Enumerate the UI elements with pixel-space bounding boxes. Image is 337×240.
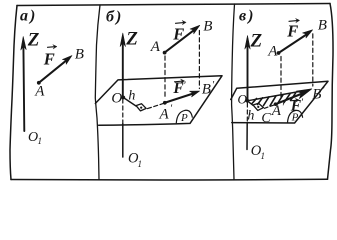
svg-text:Z: Z [125,29,138,50]
svg-text:B: B [75,47,84,63]
plane P (panel v) parallelogram [231,81,328,123]
outer frame border [10,4,333,180]
svg-text:б): б) [106,9,123,26]
svg-text:F: F [43,49,55,68]
svg-text:в): в) [239,8,255,25]
label Z (panel b) [125,29,138,50]
plane P (panel b) parallelogram [95,76,222,126]
vector F (panel v) [277,30,313,55]
svg-text:B: B [312,87,321,103]
label A (panel b) [150,39,161,55]
label F with arrow (panel a) [43,45,57,69]
svg-text:Z: Z [250,30,263,51]
label O1 (panel a) [28,130,42,146]
label F with arrow (panel v) [286,18,299,40]
svg-text:A: A [267,44,278,60]
vector F (panel a) [37,56,72,85]
label Z (panel a) [27,29,40,50]
label Z (panel v) [250,30,263,51]
svg-text:B: B [203,19,212,35]
svg-text:A: A [34,84,45,100]
svg-text:F: F [286,22,298,41]
point O on plane (panel v) [245,99,249,103]
svg-text:а): а) [20,8,37,25]
svg-text:A: A [159,106,170,122]
axis Z (panel b) [120,33,125,157]
label O1 (panel v) [251,143,265,161]
triangle top edge O to B' (panel v) [247,91,305,101]
vector F' from A' to B' (panel b) [163,91,200,105]
svg-text:C: C [261,111,271,126]
dashed segment marker to A' (panel b) [148,104,164,109]
svg-text:Z: Z [27,29,40,50]
svg-text:1: 1 [261,151,266,161]
label B' (panel b) [202,79,215,98]
svg-text:F: F [172,24,184,43]
label C (panel v) [261,111,271,126]
label F' with arrow (panel b) [172,79,186,97]
dashed projection line B to B' (panel b) [198,31,200,89]
segment O to right-angle marker, h (panel b) [123,98,136,107]
label O1 (panel b) [128,151,142,169]
svg-text:P: P [180,112,188,124]
point O on plane (panel b) [121,96,125,100]
dashed projection line B to B' (panel v) [312,34,314,86]
label A (panel v) [267,44,278,60]
panel label v) [239,8,255,25]
svg-text:B: B [202,82,211,98]
dashed projection line A to A' (panel v) [280,57,282,98]
right-angle marker with dot (panel b) [136,104,146,111]
svg-text:h: h [128,89,135,104]
svg-text:A: A [150,39,161,55]
svg-text:B: B [318,18,327,34]
label F' with arrow (panel v) [290,97,304,115]
label O (panel v) [238,92,248,107]
label h (panel b) [128,89,135,104]
label A' (panel v) [271,101,285,119]
panel label a) [20,8,37,25]
svg-text:h: h [247,109,254,124]
hatching of triangle OA'B' (panel v) [252,93,296,106]
label F with arrow (panel b) [172,20,186,43]
label B' (panel v) [312,84,325,103]
label A' (panel b) [159,102,173,122]
panel label b) [106,9,123,26]
label A (panel a) [34,84,45,100]
right-angle marker with dot at C (panel v) [253,103,264,110]
axis Z (panel v) [245,36,250,150]
dashed segment C to A' (panel v) [265,105,275,108]
segment O to right-angle marker (panel v) [247,101,253,106]
plane tab P (panel b) [176,110,192,124]
label B (panel b) [203,19,212,35]
plane tab P (panel v) [288,110,303,123]
divider between panel a and b [95,5,100,180]
svg-text:O: O [111,90,122,106]
axis Z (panel a) [21,37,26,132]
divider between panel b and v [232,4,235,180]
label h (panel v) [247,109,254,124]
svg-text:1: 1 [138,159,143,169]
label O (panel b) [111,90,122,106]
vector F (panel b) [163,25,200,54]
svg-text:1: 1 [38,136,43,146]
dashed projection line A to A' (panel b) [164,56,166,99]
label B (panel v) [318,18,327,34]
label B (panel a) [75,47,84,63]
vector F' from A' to B' (panel v) [274,89,312,106]
svg-text:O: O [238,92,248,107]
